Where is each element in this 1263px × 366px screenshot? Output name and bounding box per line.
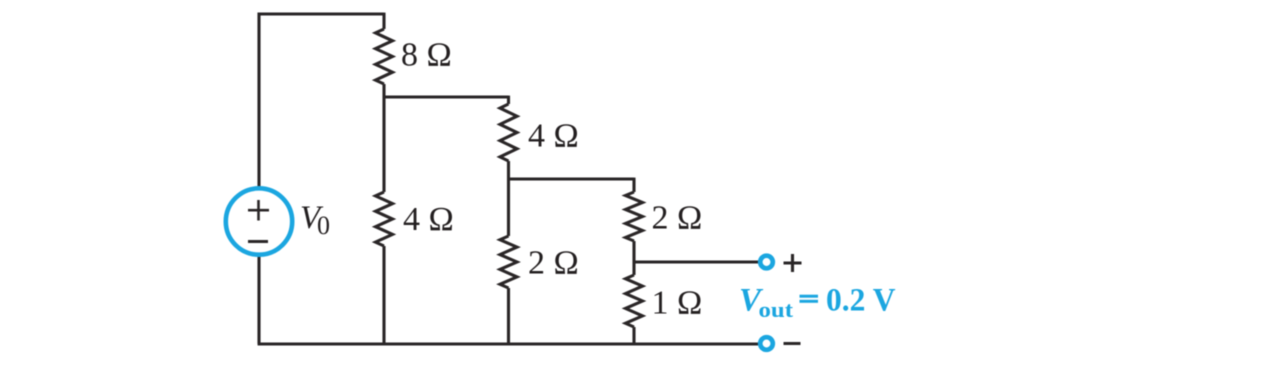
voltage source V0 xyxy=(226,188,292,254)
wire: tier-3 middle segment through output node xyxy=(632,241,635,275)
wire: tier-2 top lead xyxy=(507,96,510,104)
svg-text:8 Ω: 8 Ω xyxy=(401,37,452,74)
wire: bottom rail xyxy=(258,342,759,345)
wire: output to + terminal xyxy=(634,260,758,263)
terminal − (output) xyxy=(760,337,773,350)
terminal + (output) xyxy=(760,256,773,269)
wire: tier-3 bottom lead xyxy=(632,327,635,344)
wire: top rail from source top to node at 8Ω xyxy=(259,14,384,188)
plus sign at output xyxy=(784,254,802,272)
svg-text:4 Ω: 4 Ω xyxy=(403,201,454,238)
wire: tier-2 middle segment through node B xyxy=(507,161,510,236)
svg-text:4 Ω: 4 Ω xyxy=(528,118,579,155)
svg-text:1 Ω: 1 Ω xyxy=(652,285,703,322)
resistor 4Ω (shunt, tier 1) xyxy=(376,192,393,246)
wire: node B horizontal xyxy=(509,177,635,180)
wire: tier-2 bottom lead xyxy=(507,288,510,344)
svg-text:2 Ω: 2 Ω xyxy=(528,245,579,282)
svg-text:0.2 V: 0.2 V xyxy=(826,283,896,319)
resistor 4Ω (series, tier 2) xyxy=(500,104,517,161)
resistor 2Ω (shunt, tier 2) xyxy=(500,236,517,288)
svg-text:0: 0 xyxy=(317,211,330,240)
wire: tier-1 middle segment through node A xyxy=(382,84,385,192)
resistor 2Ω (series, tier 3) xyxy=(626,192,643,241)
wire: tier-1 top lead xyxy=(382,13,385,29)
label Vout = 0.2 V xyxy=(739,283,896,323)
wire: source bottom to bottom rail xyxy=(257,256,260,344)
wire: tier-3 top lead xyxy=(632,178,635,192)
wire: tier-1 bottom lead xyxy=(382,246,385,344)
wire: node A horizontal xyxy=(384,95,509,98)
resistor 8Ω xyxy=(376,29,393,84)
svg-text:2 Ω: 2 Ω xyxy=(652,200,703,237)
minus sign at output xyxy=(784,342,801,345)
svg-text:out: out xyxy=(759,297,794,322)
resistor 1Ω (shunt, tier 3) xyxy=(626,275,643,327)
